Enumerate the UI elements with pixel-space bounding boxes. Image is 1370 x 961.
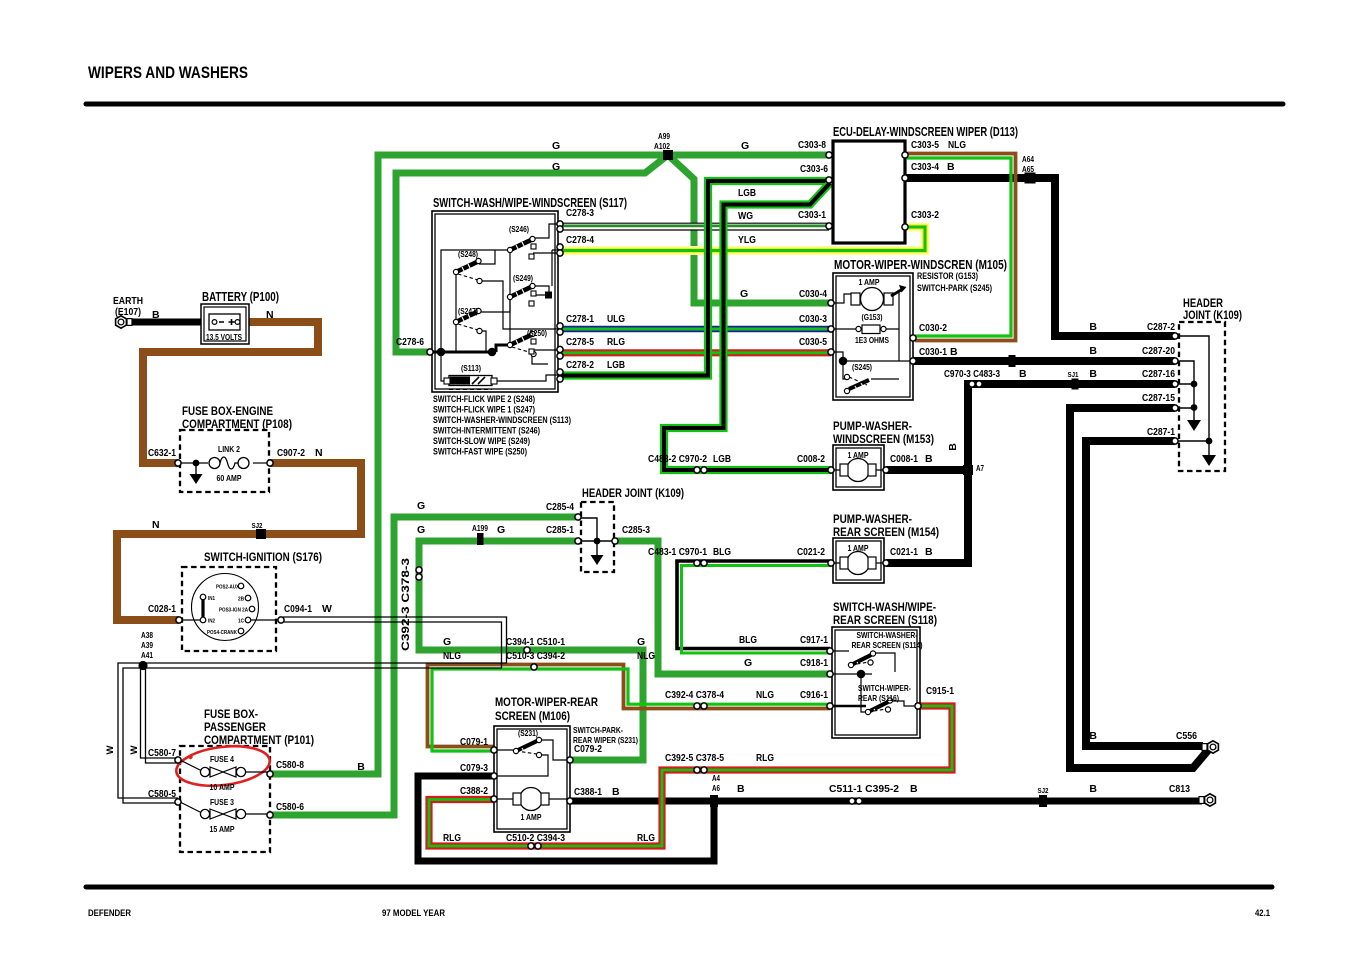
svg-text:C030-5: C030-5	[799, 336, 827, 348]
svg-text:B: B	[1019, 368, 1027, 380]
svg-text:WINDSCREEN (M153): WINDSCREEN (M153)	[833, 432, 934, 446]
svg-text:A102: A102	[654, 142, 670, 151]
svg-text:G: G	[741, 140, 749, 152]
svg-text:C079-3: C079-3	[460, 762, 488, 774]
svg-text:C079-2: C079-2	[574, 743, 602, 755]
svg-text:2B: 2B	[238, 597, 244, 603]
svg-text:C030-2: C030-2	[919, 322, 947, 334]
svg-text:B: B	[1089, 321, 1097, 333]
svg-text:C580-5: C580-5	[148, 788, 176, 800]
svg-text:B: B	[947, 443, 959, 451]
svg-text:C970-3 C483-3: C970-3 C483-3	[944, 368, 1000, 380]
svg-text:C580-8: C580-8	[276, 759, 304, 771]
svg-text:C580-7: C580-7	[148, 747, 176, 759]
svg-text:A38: A38	[141, 631, 153, 640]
svg-text:N: N	[152, 519, 160, 531]
svg-text:B: B	[1089, 783, 1097, 795]
svg-text:COMPARTMENT (P101): COMPARTMENT (P101)	[204, 733, 314, 747]
svg-text:SWITCH-WASH/WIPE-: SWITCH-WASH/WIPE-	[833, 600, 936, 614]
svg-text:POS3-IGN 2A: POS3-IGN 2A	[219, 608, 248, 614]
svg-text:(S113): (S113)	[461, 364, 481, 373]
svg-text:A99: A99	[658, 132, 670, 141]
svg-text:ECU-DELAY-WINDSCREEN WIPER (D1: ECU-DELAY-WINDSCREEN WIPER (D113)	[833, 125, 1018, 139]
svg-text:MOTOR-WIPER-WINDSCREN (M105): MOTOR-WIPER-WINDSCREN (M105)	[834, 258, 1007, 272]
svg-text:N: N	[315, 447, 323, 459]
svg-text:1E3 OHMS: 1E3 OHMS	[855, 336, 889, 345]
svg-text:PUMP-WASHER-: PUMP-WASHER-	[833, 512, 912, 526]
svg-text:C094-1: C094-1	[284, 603, 312, 615]
svg-text:BLG: BLG	[713, 546, 731, 558]
svg-text:(S248): (S248)	[458, 250, 478, 259]
svg-text:G: G	[497, 524, 505, 536]
svg-text:C079-1: C079-1	[460, 736, 488, 748]
svg-text:C580-6: C580-6	[276, 801, 304, 813]
svg-text:SWITCH-IGNITION (S176): SWITCH-IGNITION (S176)	[204, 550, 322, 564]
svg-text:C303-8: C303-8	[798, 139, 826, 151]
svg-text:C278-5: C278-5	[566, 336, 594, 348]
svg-text:RESISTOR (G153): RESISTOR (G153)	[917, 271, 978, 281]
svg-text:MOTOR-WIPER-REAR: MOTOR-WIPER-REAR	[495, 695, 598, 709]
svg-text:(S245): (S245)	[852, 363, 872, 372]
svg-text:C392-3 C378-3: C392-3 C378-3	[400, 558, 412, 651]
svg-text:NLG: NLG	[948, 139, 966, 151]
svg-text:C303-4: C303-4	[911, 161, 939, 173]
svg-text:NLG: NLG	[637, 650, 655, 662]
svg-text:60 AMP: 60 AMP	[217, 473, 242, 483]
svg-text:LGB: LGB	[738, 187, 756, 199]
svg-text:G: G	[637, 636, 645, 648]
svg-text:COMPARTMENT (P108): COMPARTMENT (P108)	[182, 417, 292, 431]
svg-text:C287-2: C287-2	[1147, 321, 1175, 333]
svg-text:WIPERS AND WASHERS: WIPERS AND WASHERS	[88, 63, 248, 82]
svg-text:(G153): (G153)	[862, 313, 883, 322]
svg-text:A4: A4	[712, 774, 720, 783]
svg-text:C278-1: C278-1	[566, 313, 594, 325]
svg-text:B: B	[1089, 345, 1097, 357]
svg-text:POS2-AUX: POS2-AUX	[216, 585, 239, 591]
svg-text:G: G	[552, 140, 560, 152]
svg-text:C008-2: C008-2	[797, 453, 825, 465]
svg-text:C278-6: C278-6	[396, 336, 424, 348]
svg-text:W: W	[129, 745, 140, 754]
svg-text:ULG: ULG	[607, 313, 625, 325]
svg-text:G: G	[417, 524, 425, 536]
svg-text:REAR SCREEN (S114): REAR SCREEN (S114)	[852, 641, 923, 650]
svg-text:(S246): (S246)	[509, 225, 529, 234]
svg-text:JOINT (K109): JOINT (K109)	[1183, 310, 1242, 322]
svg-text:LINK 2: LINK 2	[218, 444, 240, 454]
svg-text:HEADER: HEADER	[1183, 298, 1224, 310]
svg-text:C021-2: C021-2	[797, 546, 825, 558]
svg-text:G: G	[417, 500, 425, 512]
svg-text:(E107): (E107)	[115, 306, 141, 318]
svg-text:C303-6: C303-6	[800, 163, 828, 175]
svg-text:W: W	[105, 745, 116, 754]
svg-text:C287-16: C287-16	[1142, 368, 1175, 380]
svg-text:SWITCH-WASH/WIPE-WINDSCREEN (S: SWITCH-WASH/WIPE-WINDSCREEN (S117)	[433, 196, 627, 210]
svg-text:SCREEN (M106): SCREEN (M106)	[495, 709, 570, 723]
svg-text:C388-2: C388-2	[460, 785, 488, 797]
svg-text:A7: A7	[976, 464, 984, 473]
svg-text:IN2: IN2	[208, 619, 215, 625]
svg-text:C303-2: C303-2	[911, 209, 939, 221]
svg-text:B: B	[357, 761, 365, 773]
svg-text:DEFENDER: DEFENDER	[88, 908, 131, 919]
svg-text:10 AMP: 10 AMP	[210, 782, 235, 792]
svg-text:A199: A199	[472, 524, 488, 533]
svg-text:(S247): (S247)	[458, 307, 478, 316]
svg-text:FUSE 4: FUSE 4	[210, 754, 234, 764]
svg-text:C510-3 C394-2: C510-3 C394-2	[506, 650, 565, 662]
svg-text:B: B	[612, 786, 620, 798]
svg-text:BLG: BLG	[739, 634, 757, 646]
svg-text:C483-1 C970-1: C483-1 C970-1	[648, 546, 707, 558]
svg-text:BATTERY (P100): BATTERY (P100)	[202, 290, 279, 304]
svg-text:SWITCH-FLICK WIPE 1 (S247): SWITCH-FLICK WIPE 1 (S247)	[433, 405, 535, 415]
svg-text:C483-2 C970-2: C483-2 C970-2	[648, 453, 707, 465]
svg-text:C632-1: C632-1	[148, 447, 176, 459]
svg-text:G: G	[740, 288, 748, 300]
svg-text:A6: A6	[712, 784, 720, 793]
svg-text:C285-1: C285-1	[546, 524, 574, 536]
svg-text:REAR SCREEN (S118): REAR SCREEN (S118)	[833, 613, 937, 627]
svg-text:SJ2: SJ2	[1038, 786, 1049, 795]
svg-text:SWITCH-FLICK WIPE 2 (S248): SWITCH-FLICK WIPE 2 (S248)	[433, 394, 535, 404]
svg-text:13.5 VOLTS: 13.5 VOLTS	[206, 333, 243, 342]
svg-text:C907-2: C907-2	[277, 447, 305, 459]
svg-text:C510-2 C394-3: C510-2 C394-3	[506, 832, 565, 844]
svg-text:YLG: YLG	[738, 234, 756, 246]
svg-text:LGB: LGB	[713, 453, 731, 465]
svg-text:B: B	[925, 546, 933, 558]
svg-text:C030-3: C030-3	[799, 313, 827, 325]
svg-text:C303-5: C303-5	[911, 139, 939, 151]
svg-text:B: B	[925, 453, 933, 465]
svg-text:RLG: RLG	[756, 752, 774, 764]
svg-text:A39: A39	[141, 641, 153, 650]
svg-text:C392-4 C378-4: C392-4 C378-4	[665, 689, 724, 701]
svg-text:C915-1: C915-1	[926, 685, 954, 697]
svg-text:1C: 1C	[238, 619, 244, 625]
svg-text:1 AMP: 1 AMP	[848, 543, 869, 553]
svg-text:B: B	[910, 783, 918, 795]
svg-text:15 AMP: 15 AMP	[210, 824, 235, 834]
svg-text:C303-1: C303-1	[798, 209, 826, 221]
svg-text:42.1: 42.1	[1255, 908, 1271, 919]
svg-text:SJ1: SJ1	[1068, 370, 1079, 379]
svg-text:SWITCH-WASHER-WINDSCREEN (S113: SWITCH-WASHER-WINDSCREEN (S113)	[433, 415, 571, 425]
svg-text:RLG: RLG	[443, 832, 461, 844]
svg-text:N: N	[266, 309, 274, 321]
svg-text:SJ2: SJ2	[252, 521, 263, 530]
svg-text:(S249): (S249)	[513, 274, 533, 283]
svg-text:(S250): (S250)	[527, 329, 547, 338]
svg-text:SWITCH-WASHER-: SWITCH-WASHER-	[857, 631, 918, 640]
svg-text:NLG: NLG	[443, 650, 461, 662]
svg-text:C287-20: C287-20	[1142, 345, 1175, 357]
svg-text:C394-1 C510-1: C394-1 C510-1	[506, 636, 565, 648]
svg-text:WG: WG	[738, 210, 753, 222]
svg-text:C278-3: C278-3	[566, 207, 594, 219]
svg-text:C813: C813	[1169, 783, 1190, 795]
svg-text:(S231): (S231)	[518, 729, 538, 738]
svg-text:1 AMP: 1 AMP	[848, 450, 869, 460]
svg-text:G: G	[744, 657, 752, 669]
svg-text:PUMP-WASHER-: PUMP-WASHER-	[833, 419, 912, 433]
svg-text:B: B	[1089, 368, 1097, 380]
svg-text:HEADER JOINT (K109): HEADER JOINT (K109)	[582, 486, 684, 500]
svg-text:SWITCH-PARK (S245): SWITCH-PARK (S245)	[917, 283, 992, 293]
svg-text:SWITCH-WIPER-: SWITCH-WIPER-	[858, 684, 911, 693]
svg-text:C030-4: C030-4	[799, 288, 827, 300]
svg-text:C285-4: C285-4	[546, 501, 574, 513]
svg-text:A65: A65	[1022, 165, 1034, 174]
svg-text:C392-5 C378-5: C392-5 C378-5	[665, 752, 724, 764]
svg-text:C916-1: C916-1	[800, 689, 828, 701]
svg-text:B: B	[947, 161, 955, 173]
svg-text:G: G	[552, 161, 560, 173]
svg-text:C278-2: C278-2	[566, 359, 594, 371]
svg-text:RLG: RLG	[607, 336, 625, 348]
svg-text:SWITCH-PARK-: SWITCH-PARK-	[573, 726, 623, 735]
svg-text:FUSE BOX-: FUSE BOX-	[204, 707, 258, 721]
svg-text:SWITCH-SLOW WIPE (S249): SWITCH-SLOW WIPE (S249)	[433, 436, 530, 446]
svg-text:IN1: IN1	[208, 596, 215, 602]
svg-text:NLG: NLG	[756, 689, 774, 701]
svg-text:B: B	[950, 346, 958, 358]
svg-text:REAR (S116): REAR (S116)	[858, 694, 899, 703]
svg-text:C388-1: C388-1	[574, 786, 602, 798]
svg-text:C278-4: C278-4	[566, 234, 594, 246]
svg-text:C917-1: C917-1	[800, 634, 828, 646]
svg-text:RLG: RLG	[637, 832, 655, 844]
svg-text:C285-3: C285-3	[622, 524, 650, 536]
svg-text:SWITCH-INTERMITTENT (S246): SWITCH-INTERMITTENT (S246)	[433, 426, 540, 436]
svg-text:SWITCH-FAST WIPE (S250): SWITCH-FAST WIPE (S250)	[433, 447, 527, 457]
svg-text:C008-1: C008-1	[890, 453, 918, 465]
svg-text:B: B	[737, 783, 745, 795]
svg-text:B: B	[1089, 730, 1097, 742]
svg-text:FUSE 3: FUSE 3	[210, 797, 234, 807]
svg-text:C028-1: C028-1	[148, 603, 176, 615]
svg-text:97 MODEL YEAR: 97 MODEL YEAR	[382, 908, 445, 919]
svg-text:W: W	[322, 603, 332, 615]
svg-text:A64: A64	[1022, 155, 1034, 164]
svg-text:POS4-CRANK: POS4-CRANK	[207, 630, 237, 636]
svg-text:1 AMP: 1 AMP	[521, 812, 542, 822]
svg-text:C287-1: C287-1	[1147, 426, 1175, 438]
svg-text:C030-1: C030-1	[919, 346, 947, 358]
svg-text:C556: C556	[1176, 730, 1197, 742]
svg-text:C287-15: C287-15	[1142, 392, 1175, 404]
svg-text:G: G	[443, 636, 451, 648]
svg-text:C918-1: C918-1	[800, 657, 828, 669]
svg-text:LGB: LGB	[607, 359, 625, 371]
svg-text:PASSENGER: PASSENGER	[204, 720, 266, 734]
svg-text:C511-1 C395-2: C511-1 C395-2	[829, 783, 899, 795]
svg-text:C021-1: C021-1	[890, 546, 918, 558]
svg-text:1 AMP: 1 AMP	[859, 277, 880, 287]
svg-text:A41: A41	[141, 651, 153, 660]
svg-text:B: B	[152, 309, 160, 321]
svg-text:REAR SCREEN (M154): REAR SCREEN (M154)	[833, 525, 939, 539]
svg-text:FUSE BOX-ENGINE: FUSE BOX-ENGINE	[182, 404, 273, 418]
